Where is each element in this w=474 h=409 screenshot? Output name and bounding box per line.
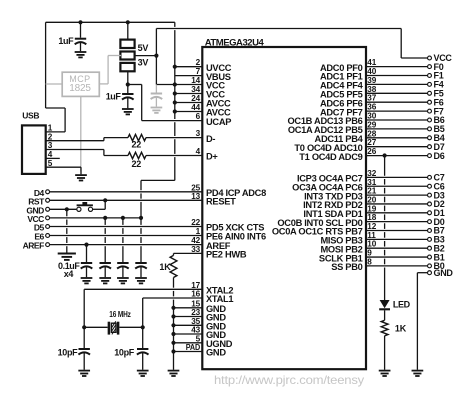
svg-text:2: 2 [196, 58, 201, 67]
svg-text:5V: 5V [138, 43, 149, 53]
svg-text:D+: D+ [206, 152, 218, 162]
svg-text:1: 1 [196, 227, 201, 236]
svg-text:7: 7 [196, 67, 201, 76]
svg-text:32: 32 [367, 169, 376, 178]
svg-text:8: 8 [367, 257, 372, 266]
svg-text:27: 27 [367, 138, 376, 147]
svg-text:10pF: 10pF [114, 347, 135, 357]
svg-text:40: 40 [367, 67, 376, 76]
svg-text:12: 12 [367, 222, 376, 231]
svg-text:22: 22 [131, 139, 141, 149]
svg-text:1825: 1825 [69, 83, 91, 94]
svg-text:44: 44 [191, 103, 200, 112]
svg-text:ATMEGA32U4: ATMEGA32U4 [205, 37, 265, 48]
svg-text:35: 35 [191, 317, 200, 326]
svg-text:5: 5 [48, 159, 53, 168]
svg-text:43: 43 [191, 326, 200, 335]
svg-text:38: 38 [367, 85, 376, 94]
svg-text:LED: LED [393, 300, 411, 310]
svg-text:39: 39 [367, 76, 376, 85]
svg-text:VCC: VCC [434, 53, 453, 63]
svg-text:GND: GND [434, 268, 454, 278]
svg-text:18: 18 [367, 213, 376, 222]
svg-text:24: 24 [191, 94, 200, 103]
svg-text:AREF: AREF [23, 241, 44, 251]
svg-text:9: 9 [367, 249, 372, 258]
svg-text:3: 3 [48, 141, 53, 150]
svg-text:33: 33 [191, 245, 200, 254]
svg-text:42: 42 [191, 236, 200, 245]
svg-text:UCAP: UCAP [206, 117, 231, 127]
svg-text:17: 17 [191, 281, 200, 290]
svg-text:PAD: PAD [186, 343, 201, 352]
svg-text:21: 21 [367, 187, 376, 196]
svg-text:16 MHz: 16 MHz [109, 309, 131, 319]
svg-text:4: 4 [196, 147, 201, 156]
svg-text:22: 22 [191, 218, 200, 227]
svg-text:D-: D- [206, 134, 215, 144]
svg-text:37: 37 [367, 94, 376, 103]
svg-text:1uF: 1uF [58, 36, 74, 46]
svg-text:1K: 1K [159, 262, 171, 272]
svg-text:16: 16 [191, 290, 200, 299]
svg-text:GND: GND [206, 348, 226, 358]
svg-text:13: 13 [191, 192, 200, 201]
svg-text:29: 29 [367, 120, 376, 129]
svg-text:RESET: RESET [206, 197, 236, 207]
svg-text:41: 41 [367, 58, 376, 67]
svg-text:x4: x4 [64, 269, 74, 279]
svg-text:3: 3 [196, 129, 201, 138]
svg-text:30: 30 [367, 112, 376, 121]
svg-text:11: 11 [367, 231, 376, 240]
svg-text:XTAL1: XTAL1 [206, 294, 233, 304]
svg-text:http://www.pjrc.com/teensy: http://www.pjrc.com/teensy [214, 373, 364, 387]
svg-text:26: 26 [367, 147, 376, 156]
svg-text:T1 OC4D ADC9: T1 OC4D ADC9 [299, 152, 362, 162]
svg-text:1uF: 1uF [106, 91, 122, 101]
svg-text:28: 28 [367, 129, 376, 138]
svg-text:5: 5 [196, 334, 201, 343]
svg-text:34: 34 [191, 85, 200, 94]
svg-text:14: 14 [191, 76, 200, 85]
svg-text:USB: USB [22, 111, 39, 121]
svg-text:31: 31 [367, 178, 376, 187]
svg-text:36: 36 [367, 103, 376, 112]
svg-text:22: 22 [131, 159, 141, 169]
svg-text:15: 15 [191, 299, 200, 308]
svg-text:1K: 1K [395, 324, 407, 334]
svg-text:6: 6 [196, 112, 201, 121]
svg-text:D6: D6 [434, 151, 445, 161]
svg-text:SS PB0: SS PB0 [331, 262, 362, 272]
svg-text:PE2 HWB: PE2 HWB [206, 250, 247, 260]
svg-text:2: 2 [48, 132, 53, 141]
svg-text:10: 10 [367, 240, 376, 249]
svg-text:10pF: 10pF [58, 347, 79, 357]
svg-text:19: 19 [367, 204, 376, 213]
svg-text:3V: 3V [138, 57, 149, 67]
svg-text:23: 23 [191, 308, 200, 317]
svg-text:20: 20 [367, 195, 376, 204]
